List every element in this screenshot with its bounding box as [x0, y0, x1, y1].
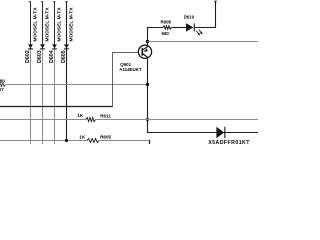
transistor Q601 A114EUKT: [119, 45, 151, 72]
wire B at y=41 to right edge: [148, 41, 259, 43]
svg-text:R608: R608: [161, 19, 172, 24]
svg-text:MODSEL M-TX: MODSEL M-TX: [45, 7, 51, 42]
node dot at collector / R611 line: [146, 118, 149, 121]
wire corner down at end of R605 line: [149, 140, 151, 144]
diode D620 (bottom right): [208, 127, 250, 146]
svg-text:R607: R607: [0, 87, 4, 92]
diode D604: [49, 44, 57, 63]
node dot at collector / base-left wire: [146, 83, 149, 86]
svg-text:1K: 1K: [77, 113, 84, 118]
svg-text:D602: D602: [25, 50, 31, 63]
svg-text:MODSEL M-TX: MODSEL M-TX: [57, 7, 63, 42]
wire LED to top-right corner, up to top edge: [195, 1, 216, 28]
wire emitter top: corner to R608 rail and top rail: [148, 28, 164, 42]
resistor R608: [161, 19, 172, 36]
svg-text:D605: D605: [61, 50, 67, 63]
svg-text:680: 680: [162, 31, 170, 36]
svg-text:D604: D604: [49, 50, 55, 63]
wire between R608 and LED: [171, 27, 186, 29]
wire black bottom-left y=106: [0, 106, 113, 108]
wire bus line 3 (vertical): [54, 2, 56, 50]
resistor R605: [79, 135, 111, 143]
svg-text:X5ADFFR01KT: X5ADFFR01KT: [208, 140, 250, 144]
LED D619: [184, 14, 203, 35]
svg-text:D619: D619: [184, 14, 195, 19]
node dot at emitter / wire B: [146, 40, 149, 43]
wire base-left at y=84.7: [6, 84, 148, 86]
resistor R611: [77, 113, 111, 121]
wire R605 line y=140.3: [0, 140, 87, 142]
svg-text:R605: R605: [100, 135, 111, 140]
wire bus line 4 (vertical, black): [66, 2, 68, 141]
diode D602: [25, 44, 33, 63]
wire collector vertical + bottom-right branch: [148, 58, 259, 133]
diode D605: [61, 44, 69, 63]
svg-text:680: 680: [0, 79, 5, 84]
svg-text:R611: R611: [100, 113, 111, 118]
wire bus line 1 (vertical): [30, 2, 32, 50]
svg-text:A114EUKT: A114EUKT: [119, 67, 142, 72]
diode D603: [37, 44, 45, 63]
resistor R607 (clipped at left edge): [0, 79, 6, 92]
svg-text:D603: D603: [37, 50, 43, 63]
wire R611 line y=119: [0, 119, 86, 121]
node dot wire4 / R605 line: [65, 139, 68, 142]
svg-text:MODSEL M-TX: MODSEL M-TX: [33, 7, 39, 42]
svg-text:MODSEL M-TX: MODSEL M-TX: [69, 7, 75, 42]
svg-text:1K: 1K: [79, 135, 86, 140]
wire bus line 2 (vertical): [42, 2, 44, 50]
